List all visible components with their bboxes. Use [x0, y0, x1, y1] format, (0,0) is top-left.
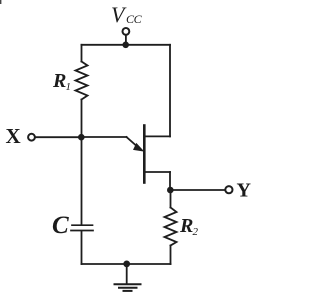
svg-text:C: C	[52, 212, 69, 239]
svg-text:R: R	[52, 70, 66, 92]
junction: Vcc on top rail	[122, 42, 129, 49]
ground	[115, 264, 141, 291]
junction: emitter node	[167, 187, 174, 194]
wire: capacitor C to bottom rail	[81, 231, 83, 264]
junction: node X	[78, 134, 85, 141]
resistor R1	[76, 62, 88, 100]
svg-text:2: 2	[193, 226, 199, 238]
svg-text:Y: Y	[237, 180, 252, 202]
svg-text:V: V	[111, 2, 127, 27]
wire: R1 to node X	[81, 100, 83, 138]
terminal Vcc	[123, 28, 130, 35]
svg-text:1: 1	[66, 81, 72, 93]
X label	[6, 124, 21, 148]
wire: R2 to bottom rail	[170, 246, 172, 265]
resistor R2	[165, 208, 177, 246]
wire: emitter leg	[169, 172, 171, 190]
wire: collector riser	[169, 45, 171, 137]
wire: top rail to R1	[81, 45, 83, 62]
svg-text:X: X	[6, 124, 21, 148]
transistor Q1	[127, 126, 171, 183]
wire: bottom rail	[82, 263, 171, 265]
wire: node X to capacitor C	[81, 137, 83, 225]
wire: Vcc stub	[125, 35, 127, 45]
Vcc label	[111, 2, 143, 27]
wire: emitter node to Y	[170, 189, 224, 191]
wire: emitter node to R2	[170, 190, 172, 208]
terminal Y	[225, 186, 232, 193]
wire: base lead	[82, 136, 127, 138]
terminal X	[28, 134, 35, 141]
svg-text:CC: CC	[126, 12, 143, 26]
R1 label	[52, 70, 71, 93]
C label	[52, 212, 69, 239]
svg-text:R: R	[179, 215, 193, 237]
scan speck top-left corner	[0, 0, 1, 4]
wire: top rail	[82, 44, 171, 46]
Y label	[237, 180, 252, 202]
R2 label	[179, 215, 199, 238]
junction: ground node	[123, 261, 130, 268]
wire: X terminal to junction	[35, 136, 81, 138]
capacitor C	[71, 225, 93, 230]
